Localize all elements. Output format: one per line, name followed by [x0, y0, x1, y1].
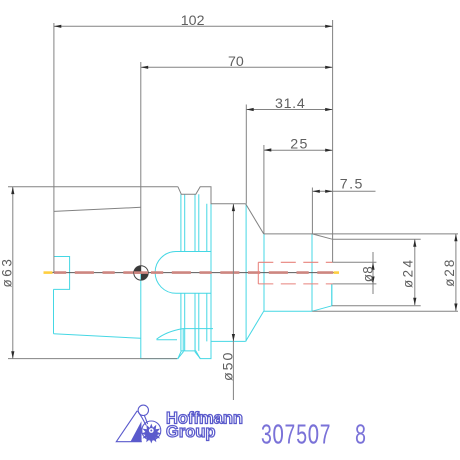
- svg-text:ø50: ø50: [221, 351, 237, 381]
- svg-text:ø8: ø8: [360, 266, 375, 282]
- svg-text:102: 102: [181, 13, 205, 29]
- svg-text:3O75O7 8: 3O75O7 8: [261, 421, 367, 452]
- svg-text:ø24: ø24: [401, 257, 416, 288]
- svg-text:ø63: ø63: [0, 257, 14, 288]
- svg-text:70: 70: [228, 54, 244, 70]
- svg-text:25: 25: [290, 136, 309, 152]
- svg-text:Group: Group: [166, 423, 216, 441]
- svg-text:ø28: ø28: [442, 258, 457, 287]
- svg-text:7.5: 7.5: [340, 177, 364, 193]
- svg-text:31.4: 31.4: [275, 96, 305, 112]
